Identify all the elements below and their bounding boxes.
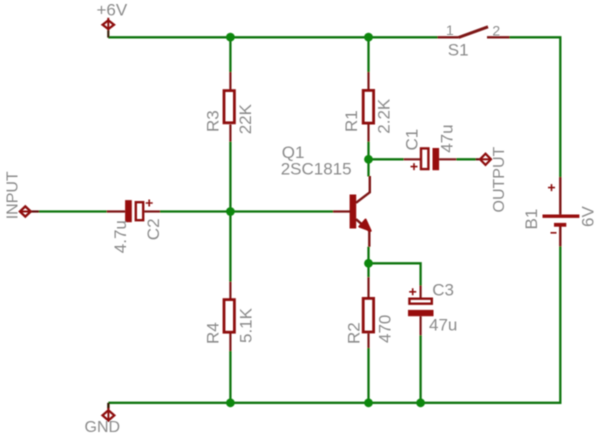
node junction base divider [226, 207, 235, 216]
node junction top R1 [364, 33, 373, 42]
svg-text:R4: R4 [204, 322, 223, 344]
wire emitter junction to C3 branch [369, 263, 421, 285]
supply +6V symbol [103, 18, 114, 38]
svg-text:GND: GND [85, 419, 121, 436]
svg-text:B1: B1 [522, 209, 541, 230]
resistor R2 [363, 277, 373, 348]
wire R4 to bottom rail [229, 351, 231, 404]
svg-text:4.7u: 4.7u [111, 220, 130, 253]
svg-text:6V: 6V [579, 206, 598, 227]
wire input to C2 [39, 210, 107, 212]
battery B1 [543, 177, 580, 246]
svg-text:2SC1815: 2SC1815 [281, 160, 352, 179]
resistor R1 [363, 72, 373, 142]
svg-text:22K: 22K [236, 103, 255, 134]
wire R1 column top [367, 36, 369, 72]
svg-text:R2: R2 [344, 322, 363, 344]
svg-text:2: 2 [492, 23, 500, 39]
wire collector node to C1 [369, 158, 404, 160]
pin INPUT [20, 206, 39, 216]
wire R3 to base row to R4 [229, 142, 231, 282]
resistor R3 [224, 72, 234, 142]
node junction collector C1 [364, 155, 373, 164]
wire battery to bottom rail [108, 246, 560, 402]
wire C1 to output pin [456, 158, 475, 160]
wire switch to top-right corner and down to battery [510, 37, 561, 177]
wire top rail [108, 36, 437, 38]
svg-text:R1: R1 [342, 110, 361, 132]
node junction bottom R4 [226, 398, 235, 407]
svg-text:47u: 47u [429, 316, 457, 335]
svg-text:INPUT: INPUT [5, 171, 22, 219]
capacitor C3 [408, 286, 434, 336]
svg-text:C2: C2 [144, 218, 163, 240]
svg-text:S1: S1 [448, 41, 469, 60]
ground GND symbol [103, 403, 115, 422]
svg-text:+6V: +6V [97, 1, 128, 20]
svg-text:5.1K: 5.1K [237, 307, 256, 343]
svg-text:C1: C1 [403, 129, 422, 151]
svg-text:470: 470 [376, 315, 395, 343]
resistor R4 [224, 282, 234, 351]
wire C2 to base [160, 210, 333, 212]
transistor Q1 [333, 176, 371, 247]
svg-text:47u: 47u [437, 124, 456, 152]
node junction bottom R2 [364, 398, 373, 407]
node junction bottom C3 [416, 398, 425, 407]
wire C3 to bottom rail [419, 335, 421, 404]
svg-text:OUTPUT: OUTPUT [491, 147, 508, 213]
svg-text:C3: C3 [432, 281, 454, 300]
wire R3 column top [229, 36, 231, 72]
capacitor C2 [107, 200, 160, 223]
wire R2 to bottom rail [367, 348, 369, 404]
node junction top R3 [226, 33, 235, 42]
svg-text:R3: R3 [203, 110, 222, 132]
switch S1 [438, 27, 510, 38]
node junction emitter [364, 259, 373, 268]
svg-text:2.2K: 2.2K [374, 98, 393, 134]
capacitor C1 [404, 148, 457, 170]
wire emitter to junction [367, 247, 369, 278]
wire R1 to collector node [367, 142, 369, 177]
svg-text:1: 1 [446, 22, 454, 38]
pin OUTPUT [476, 154, 492, 165]
